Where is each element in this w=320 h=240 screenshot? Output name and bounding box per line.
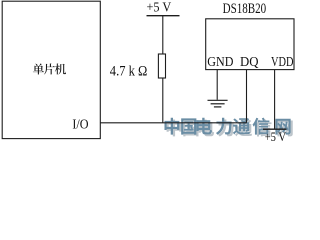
watermark shadow 中国电力通信网 [167,119,293,136]
svg-text:VDD: VDD [271,55,294,70]
power +5V top bar [147,15,180,17]
IC U2 DS18B20 box [206,19,294,70]
wire GND pin1 [216,70,218,100]
watermark text 中国电力通信网 [164,118,290,135]
wire I/O to DQ [100,122,246,124]
ground symbol [208,100,228,107]
wire VDD pin3 [274,70,276,130]
wire DQ pin2 to I/O node [246,70,248,123]
svg-text:DQ: DQ [240,55,259,70]
svg-text:DS18B20: DS18B20 [223,0,267,17]
MCU box U1 单片机 [2,1,100,138]
svg-text:I/O: I/O [72,118,88,133]
svg-text:+5 V: +5 V [265,129,287,143]
wire +5V bar to resistor [162,16,164,54]
resistor R1 4.7k body [158,54,165,78]
svg-text:GND: GND [207,55,233,70]
wire resistor to I/O node [162,78,164,123]
power +5V bottom bar [263,128,287,130]
svg-text:4.7 k Ω: 4.7 k Ω [110,64,148,80]
svg-text:+5 V: +5 V [147,1,172,16]
label 单片机 [33,63,66,74]
